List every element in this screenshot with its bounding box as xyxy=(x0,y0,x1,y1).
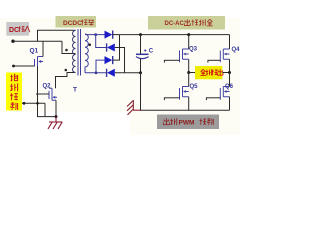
transformer polarity dot (primary bottom) xyxy=(65,69,68,72)
wire Q1 source down to ground bus xyxy=(38,66,57,117)
wire Q4 gate stub xyxy=(208,59,221,61)
transformer T secondary winding xyxy=(85,34,88,73)
svg-text:PWM: PWM xyxy=(179,120,195,127)
svg-text:Q3: Q3 xyxy=(189,47,198,53)
wire AC2 to D3 anode xyxy=(96,60,105,73)
node junction control/Q1-source xyxy=(36,102,39,105)
svg-text:DC: DC xyxy=(9,27,19,34)
label box: DC-AC full bridge inverter (DC-AC全桥逆变) xyxy=(148,16,225,30)
wire Q5 drain riser xyxy=(188,73,190,87)
wire Q6 gate stub xyxy=(206,97,220,99)
svg-text:Q5: Q5 xyxy=(190,84,199,90)
node DC- capacitor junction xyxy=(139,71,142,74)
node DC+ input terminal dot xyxy=(11,40,14,43)
svg-text:Q1: Q1 xyxy=(30,48,39,55)
wire AC1 to D2 cathode xyxy=(96,35,107,48)
ground (left, earth symbol) xyxy=(48,117,63,129)
wire Q3 gate stub xyxy=(164,59,180,61)
wire D2 anode down to minus rail xyxy=(115,48,125,73)
wire capacitor bottom / DC- down to bottom rail xyxy=(141,59,230,110)
capacitor C riser top xyxy=(140,35,142,54)
wire primary top tap xyxy=(38,30,76,41)
wire DC+ input to center tap xyxy=(13,41,76,53)
node DC+ left leg junction xyxy=(187,33,190,36)
wire Q4 source to bridge midpoint right xyxy=(229,59,231,72)
wire Q1 drain riser xyxy=(42,41,44,56)
ground (right, earth symbol rotated) xyxy=(127,100,141,115)
wire Q2 gate stub xyxy=(36,93,49,95)
wire Q5 source to bottom rail xyxy=(188,97,190,110)
node junction ground bus xyxy=(55,115,58,118)
node bridge midpoint right xyxy=(228,71,231,74)
transistor Q1 symbol xyxy=(35,57,44,67)
wire Q3 drain riser xyxy=(188,35,190,49)
wire DC+ rail (rectifier output to bridge) xyxy=(113,35,230,49)
transformer polarity dot (primary center) xyxy=(65,49,68,52)
node DC+ capacitor junction xyxy=(139,33,142,36)
diode D2 (rectifier, left) xyxy=(107,43,115,51)
svg-text:Q4: Q4 xyxy=(232,47,241,53)
label box: DCDC module (DCDC模块) xyxy=(56,16,97,28)
transformer polarity dot (secondary) xyxy=(88,43,91,46)
diode D3 (rectifier, right) xyxy=(105,56,113,64)
wire Q6 source to bottom rail xyxy=(229,97,231,110)
wire Q1 gate stub xyxy=(13,65,35,67)
wire secondary top AC1 to rectifier xyxy=(85,34,105,36)
diode D4 (rectifier, left) xyxy=(107,69,115,77)
transistor Q6 symbol xyxy=(220,87,229,100)
transformer core xyxy=(78,29,81,76)
svg-text:DCDC: DCDC xyxy=(63,20,82,27)
transformer T primary winding xyxy=(73,31,76,73)
wire Q2 source down xyxy=(55,100,57,116)
wire DC- rail xyxy=(115,72,141,74)
wire secondary bottom AC2 to rectifier xyxy=(85,72,107,74)
wire D3 cathode up to rail xyxy=(113,35,120,61)
svg-text:DC-AC: DC-AC xyxy=(165,21,185,27)
sheet background xyxy=(0,0,240,135)
wire control feedback from push-pull controller xyxy=(22,103,45,116)
diode D1 (rectifier, right) xyxy=(105,31,113,39)
node AC1 junction xyxy=(94,33,97,36)
wire Q3 source to bridge midpoint left xyxy=(188,59,190,72)
label box: full-bridge PWM control (全桥PWM控制) xyxy=(157,115,219,130)
svg-text:C: C xyxy=(149,48,154,54)
node AC2 junction xyxy=(95,71,98,74)
transistor Q4 symbol xyxy=(220,49,229,62)
wire primary bottom tap to Q2 drain xyxy=(56,73,76,89)
transistor Q3 symbol xyxy=(180,49,189,62)
wire midpoint left to AC output box xyxy=(189,72,195,74)
label box: push-pull control (推挽控制), vertical text xyxy=(6,73,22,111)
capacitor C plus sign xyxy=(144,49,147,52)
transistor Q5 symbol xyxy=(180,87,189,100)
svg-text:T: T xyxy=(73,87,77,94)
label box: AC output (交流输出) xyxy=(195,66,223,79)
transistor Q2 symbol xyxy=(48,88,57,100)
label box: DC input (DC输入) xyxy=(6,22,30,36)
wire AC output box to midpoint right xyxy=(222,72,229,74)
node bridge midpoint left xyxy=(187,71,190,74)
wire Q6 drain riser xyxy=(229,73,231,87)
capacitor C plates xyxy=(136,53,149,55)
wire Q5 gate stub xyxy=(164,97,180,99)
